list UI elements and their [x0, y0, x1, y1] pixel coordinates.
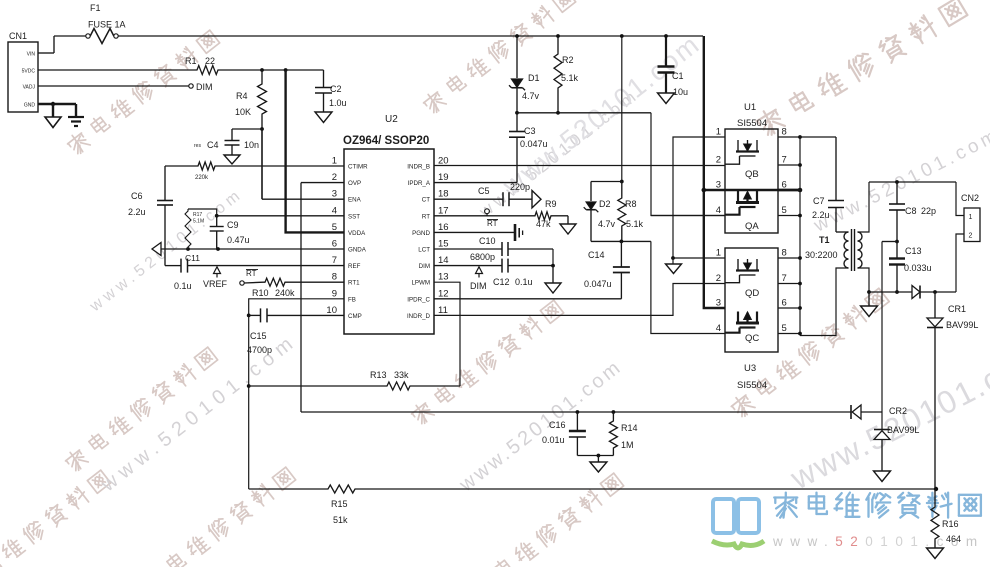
svg-text:U1: U1 [744, 102, 756, 113]
svg-text:15: 15 [438, 239, 449, 250]
svg-text:CN1: CN1 [9, 31, 27, 41]
svg-text:D1: D1 [528, 73, 540, 83]
svg-text:0.1u: 0.1u [515, 277, 533, 287]
svg-text:22: 22 [205, 56, 215, 66]
svg-text:FUSE 1A: FUSE 1A [88, 20, 126, 30]
svg-text:CN2: CN2 [961, 193, 979, 203]
svg-text:R14: R14 [621, 423, 638, 433]
svg-text:R8: R8 [625, 199, 637, 209]
svg-text:18: 18 [438, 189, 449, 200]
svg-text:C2: C2 [330, 84, 342, 94]
svg-text:LCT: LCT [418, 247, 430, 254]
svg-text:RT1: RT1 [348, 280, 360, 287]
svg-text:2.2u: 2.2u [128, 207, 146, 217]
svg-text:OVP: OVP [348, 180, 361, 187]
svg-text:C8: C8 [905, 206, 917, 216]
svg-text:0.1u: 0.1u [174, 281, 192, 291]
svg-text:5.1k: 5.1k [561, 73, 579, 83]
svg-text:220k: 220k [195, 175, 209, 181]
svg-text:2: 2 [716, 155, 721, 166]
svg-text:QA: QA [745, 221, 759, 232]
svg-text:C14: C14 [588, 250, 605, 260]
svg-text:33k: 33k [394, 370, 409, 380]
svg-text:17: 17 [438, 205, 449, 216]
svg-text:INDR_B: INDR_B [407, 164, 430, 171]
svg-text:47k: 47k [536, 219, 551, 229]
svg-text:VREF: VREF [203, 279, 228, 289]
svg-text:QD: QD [745, 288, 759, 299]
svg-text:F1: F1 [90, 3, 101, 13]
svg-text:CMP: CMP [348, 313, 362, 320]
svg-text:T1: T1 [819, 235, 830, 245]
svg-text:C16: C16 [549, 420, 566, 430]
svg-text:FB: FB [348, 296, 356, 303]
svg-text:RT: RT [422, 213, 430, 220]
svg-text:R4: R4 [236, 91, 248, 101]
svg-text:1M: 1M [621, 440, 634, 450]
svg-text:C3: C3 [524, 126, 536, 136]
svg-text:OZ964/ SSOP20: OZ964/ SSOP20 [343, 135, 429, 147]
svg-text:2: 2 [332, 172, 337, 183]
svg-text:C5: C5 [478, 186, 490, 196]
svg-text:GND: GND [24, 103, 36, 109]
svg-text:6: 6 [782, 298, 787, 309]
svg-text:C6: C6 [131, 191, 143, 201]
svg-text:U2: U2 [385, 114, 398, 125]
svg-text:6800p: 6800p [470, 252, 495, 262]
svg-text:464: 464 [946, 534, 961, 544]
svg-text:4: 4 [332, 205, 337, 216]
svg-text:12: 12 [438, 288, 449, 299]
svg-text:5.1M: 5.1M [193, 219, 204, 225]
svg-text:RT: RT [246, 269, 257, 278]
svg-text:LPWM: LPWM [411, 280, 430, 287]
svg-text:22p: 22p [921, 206, 936, 216]
svg-text:BAV99L: BAV99L [887, 425, 919, 435]
svg-text:IPDR_C: IPDR_C [407, 296, 430, 303]
svg-text:3: 3 [332, 189, 337, 200]
svg-text:RT: RT [487, 219, 498, 228]
svg-text:1: 1 [969, 214, 973, 221]
svg-text:2: 2 [969, 233, 973, 240]
svg-text:R9: R9 [545, 199, 557, 209]
svg-text:240k: 240k [275, 288, 295, 298]
svg-text:QB: QB [745, 169, 759, 180]
svg-text:7: 7 [782, 155, 787, 166]
svg-text:2: 2 [716, 273, 721, 284]
svg-text:5: 5 [782, 323, 787, 334]
svg-text:1: 1 [716, 127, 721, 138]
svg-text:6: 6 [332, 239, 337, 250]
svg-text:R17: R17 [193, 212, 202, 218]
svg-text:10u: 10u [673, 87, 688, 97]
svg-text:D2: D2 [599, 199, 611, 209]
svg-text:C4: C4 [207, 140, 219, 150]
svg-text:PGND: PGND [412, 230, 430, 237]
svg-text:10: 10 [326, 305, 337, 316]
svg-text:VDDA: VDDA [348, 230, 366, 237]
svg-text:5: 5 [332, 222, 337, 233]
svg-text:1: 1 [716, 248, 721, 259]
svg-text:4: 4 [716, 323, 721, 334]
svg-text:4.7v: 4.7v [522, 91, 540, 101]
svg-text:10K: 10K [235, 107, 251, 117]
svg-text:C9: C9 [227, 220, 239, 230]
svg-text:DIM: DIM [419, 263, 430, 270]
svg-text:CR1: CR1 [948, 304, 966, 314]
svg-text:SI5504: SI5504 [737, 118, 767, 129]
svg-text:CTIMR: CTIMR [348, 164, 368, 171]
svg-text:4700p: 4700p [247, 345, 272, 355]
svg-text:0.01u: 0.01u [542, 435, 565, 445]
svg-text:QC: QC [745, 333, 759, 344]
svg-text:1.0u: 1.0u [329, 98, 347, 108]
svg-text:7: 7 [782, 273, 787, 284]
svg-text:R10: R10 [252, 288, 269, 298]
svg-text:2.2u: 2.2u [812, 210, 830, 220]
svg-text:C7: C7 [813, 196, 825, 206]
svg-text:5VDC: 5VDC [22, 69, 36, 75]
svg-text:11: 11 [438, 305, 448, 316]
svg-text:8: 8 [782, 248, 787, 259]
svg-text:res: res [194, 143, 201, 149]
svg-text:C11: C11 [185, 253, 200, 263]
svg-text:0.047u: 0.047u [584, 279, 612, 289]
svg-text:30:2200: 30:2200 [805, 250, 838, 260]
svg-text:CT: CT [422, 197, 430, 204]
svg-text:4.7v: 4.7v [598, 219, 616, 229]
svg-text:0.033u: 0.033u [904, 263, 932, 273]
svg-text:VADJ: VADJ [23, 85, 36, 91]
svg-text:0.047u: 0.047u [520, 139, 548, 149]
svg-text:0.47u: 0.47u [227, 235, 250, 245]
svg-text:16: 16 [438, 222, 449, 233]
svg-text:10n: 10n [244, 140, 259, 150]
svg-text:DIM: DIM [196, 82, 213, 92]
svg-text:REF: REF [348, 263, 361, 270]
svg-text:51k: 51k [333, 515, 348, 525]
svg-text:C1: C1 [672, 71, 684, 81]
svg-text:VIN: VIN [27, 52, 36, 58]
svg-text:GNDA: GNDA [348, 247, 367, 254]
svg-text:BAV99L: BAV99L [946, 320, 978, 330]
svg-text:SI5504: SI5504 [737, 380, 767, 391]
svg-text:9: 9 [332, 288, 337, 299]
svg-text:1: 1 [332, 156, 337, 167]
svg-text:R13: R13 [370, 370, 387, 380]
svg-text:C12: C12 [493, 277, 510, 287]
svg-text:C15: C15 [250, 331, 267, 341]
svg-text:ENA: ENA [348, 197, 362, 204]
svg-text:13: 13 [438, 272, 449, 283]
svg-text:R2: R2 [562, 55, 574, 65]
svg-text:INDR_D: INDR_D [407, 313, 431, 320]
svg-text:R16: R16 [942, 519, 959, 529]
svg-text:R1: R1 [185, 56, 197, 66]
svg-text:C10: C10 [479, 236, 496, 246]
svg-text:7: 7 [332, 255, 337, 266]
svg-text:19: 19 [438, 172, 449, 183]
svg-text:4: 4 [716, 205, 721, 216]
svg-text:C13: C13 [905, 246, 922, 256]
svg-text:8: 8 [332, 272, 337, 283]
svg-text:CR2: CR2 [889, 406, 907, 416]
svg-text:IPDR_A: IPDR_A [408, 180, 431, 187]
svg-text:R15: R15 [331, 499, 348, 509]
svg-text:8: 8 [782, 127, 787, 138]
svg-text:14: 14 [438, 255, 449, 266]
svg-text:220p: 220p [510, 182, 530, 192]
svg-text:SST: SST [348, 213, 360, 220]
svg-text:5.1k: 5.1k [626, 219, 644, 229]
svg-text:U3: U3 [744, 363, 756, 374]
svg-text:DIM: DIM [470, 281, 487, 291]
svg-text:5: 5 [782, 205, 787, 216]
